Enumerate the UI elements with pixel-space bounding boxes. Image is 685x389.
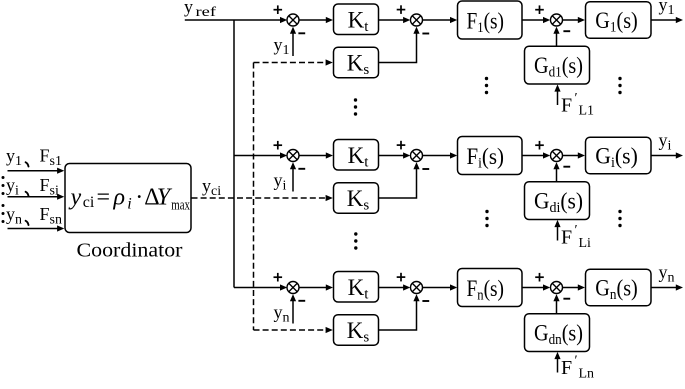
label input yn Fsn (6, 204, 62, 228)
svg-text:G1(s): G1(s) (595, 8, 638, 35)
wire summer3 to G block row n (563, 284, 586, 290)
block G_di(s) disturbance (525, 182, 590, 220)
svg-text:′: ′ (575, 91, 578, 106)
wire y_n feedback into summer 1 row n (290, 294, 296, 323)
label input yi Fsi (6, 175, 59, 199)
ellipsis F column rows 1-2 (485, 77, 488, 94)
svg-text:Fs1: Fs1 (40, 146, 62, 170)
svg-text:Gi(s): Gi(s) (595, 144, 638, 171)
summer 1 row 1 plus sign (274, 5, 283, 14)
wire Kt to summer 2 row i (379, 152, 411, 158)
wire input 1 into coordinator (8, 168, 65, 174)
wire Ks feedback to summer 2 row n (379, 294, 420, 330)
svg-text:y1: y1 (659, 0, 675, 18)
wire input 2 into coordinator (8, 194, 65, 200)
block Ks row 1 (334, 47, 379, 78)
svg-text:F: F (561, 227, 572, 249)
svg-text:max: max (171, 198, 190, 214)
wire G_dn to summer 3 row n (553, 294, 559, 313)
summer 1 row i plus sign (274, 141, 283, 150)
block F_n(s) (458, 269, 523, 307)
ellipsis K column rows 1-2 (354, 98, 357, 115)
svg-text:=: = (97, 185, 111, 211)
summer 3 row i (551, 150, 563, 162)
summer 2 row 1 (411, 14, 423, 26)
svg-text:L1: L1 (579, 104, 595, 119)
wire Kt to summer 2 row n (379, 284, 411, 290)
svg-text:Fn(s): Fn(s) (467, 276, 505, 303)
block G_d1(s) disturbance (525, 46, 590, 84)
wire y_ref branch to row 3 summer (234, 284, 287, 290)
wire G_di to summer 3 row i (553, 162, 559, 181)
node F'_Ln label (561, 354, 594, 382)
summer 3 row 1 (551, 14, 563, 26)
wire F to summer 3 row i (522, 152, 550, 158)
summer 3 row 1 minus sign (563, 30, 570, 32)
summer 1 row n (287, 282, 299, 294)
ellipsis G column rows 1-2 (618, 77, 621, 94)
svg-text:Li: Li (579, 236, 592, 251)
svg-text:yi: yi (274, 170, 287, 194)
svg-text:Fsn: Fsn (40, 204, 62, 228)
svg-text:F1(s): F1(s) (467, 8, 505, 35)
svg-text:y1: y1 (6, 146, 22, 170)
svg-text:′: ′ (575, 354, 578, 369)
summer 3 row i plus sign (535, 141, 544, 150)
summer 3 row n plus sign (535, 273, 544, 282)
node F'_Li label (561, 223, 591, 251)
block Kt row n (334, 272, 379, 303)
summer 1 row 1 minus sign (298, 32, 305, 34)
block G_dn(s) disturbance (525, 314, 590, 352)
node y_i feedback label (274, 170, 287, 194)
wire vertical y_ref distribution line (233, 20, 235, 288)
svg-text:yci: yci (202, 176, 221, 200)
summer 2 row n (411, 282, 423, 294)
summer 1 row n plus sign (274, 273, 283, 282)
svg-text:F: F (561, 357, 572, 379)
wire y_1 feedback into summer 1 row 1 (290, 27, 296, 56)
wire summer1 to Kt row 1 (299, 17, 333, 23)
wire F'_Ln disturbance input (554, 352, 560, 373)
svg-text:y: y (184, 0, 193, 17)
svg-text:F: F (561, 94, 572, 116)
summer 3 row 1 plus sign (535, 5, 544, 14)
wire vertical y_ci dashed distribution (253, 63, 255, 331)
wire Ks feedback to summer 2 row i (379, 162, 420, 198)
summer 3 row n minus sign (563, 298, 570, 300)
svg-text:Fsi: Fsi (40, 175, 59, 199)
svg-text:y: y (69, 185, 82, 211)
svg-text:·: · (135, 185, 143, 211)
svg-text:Gn(s): Gn(s) (595, 276, 638, 303)
label input y1 Fs1 (6, 146, 62, 170)
block Ks row n (334, 315, 379, 346)
summer 1 row i (287, 150, 299, 162)
block G_i(s) (586, 137, 652, 174)
wire output y_n (651, 284, 683, 290)
summer 2 row i minus sign (422, 168, 429, 170)
svg-text:yn: yn (659, 262, 675, 286)
svg-text:′: ′ (575, 223, 578, 238)
wire y_ci dashed to Ks row 2 (192, 195, 333, 201)
wire summer2 to F block row 1 (423, 17, 458, 23)
summer 2 row i plus sign (397, 141, 406, 150)
node y_1 feedback label (274, 35, 290, 59)
wire summer2 to F block row n (423, 284, 458, 290)
summer 3 row n (551, 282, 563, 294)
summer 2 row i (411, 150, 423, 162)
block G_n(s) (586, 269, 652, 306)
vertical ellipsis left inputs lower (2, 204, 5, 223)
svg-text:Ln: Ln (579, 366, 595, 381)
block Ks row i (334, 183, 379, 214)
svg-text:ci: ci (83, 194, 95, 211)
coordinator caption (77, 240, 183, 262)
svg-text:Coordinator: Coordinator (77, 240, 183, 262)
wire G_d1 to summer 3 row 1 (553, 27, 559, 46)
summer 1 row 1 (287, 14, 299, 26)
wire Kt to summer 2 row 1 (379, 17, 411, 23)
wire F'_L1 disturbance input (554, 84, 560, 105)
svg-text:ref: ref (196, 5, 217, 20)
coordinator block (65, 164, 191, 233)
block G_1(s) (586, 2, 652, 39)
summer 3 row i minus sign (563, 166, 570, 168)
summer 1 row n minus sign (298, 300, 305, 302)
wire F to summer 3 row n (522, 284, 550, 290)
svg-text:yn: yn (6, 204, 22, 228)
svg-text:yi: yi (659, 130, 672, 154)
wire summer1 to Kt row n (299, 284, 333, 290)
summer 2 row n plus sign (397, 273, 406, 282)
summer 2 row 1 minus sign (422, 33, 429, 35)
node output y_n label (659, 262, 675, 286)
node y_ref label (184, 0, 216, 20)
wire output y_i (651, 152, 683, 158)
svg-text:Fi(s): Fi(s) (467, 144, 505, 171)
node y_n feedback label (274, 302, 290, 326)
node y_ci label (202, 176, 221, 200)
wire summer3 to G block row 1 (563, 17, 586, 23)
summer 1 row i minus sign (298, 168, 305, 170)
wire y_ci dashed branch to Ks row 1 (254, 59, 333, 65)
block F_1(s) (458, 1, 523, 39)
block F_i(s) (458, 137, 523, 175)
wire F'_Li disturbance input (554, 220, 560, 241)
wire input 3 into coordinator (8, 225, 65, 231)
summer 2 row 1 plus sign (397, 5, 406, 14)
node output y_i label (659, 130, 672, 154)
svg-text:yn: yn (274, 302, 290, 326)
ellipsis G column rows 2-3 (618, 210, 621, 227)
ellipsis F column rows 2-3 (485, 210, 488, 227)
node F'_L1 label (561, 91, 594, 119)
wire summer1 to Kt row i (299, 152, 333, 158)
wire F to summer 3 row 1 (522, 17, 550, 23)
svg-text:y1: y1 (274, 35, 290, 59)
wire summer2 to F block row i (423, 152, 458, 158)
vertical ellipsis left inputs upper (2, 176, 5, 195)
wire output y_1 (651, 17, 683, 23)
block Kt row i (334, 140, 379, 171)
wire summer3 to G block row i (563, 152, 586, 158)
svg-text:ρ: ρ (113, 185, 126, 211)
ellipsis K column rows 2-3 (354, 232, 357, 249)
wire y_i feedback into summer 1 row i (290, 162, 296, 191)
summer 2 row n minus sign (422, 300, 429, 302)
svg-text:i: i (127, 195, 131, 212)
svg-text:yi: yi (6, 175, 19, 199)
wire y_ci dashed branch to Ks row 3 (254, 327, 333, 333)
wire Ks feedback to summer 2 row 1 (379, 27, 420, 63)
wire y_ref to first summer row 1 (185, 17, 287, 23)
node output y_1 label (659, 0, 675, 18)
wire y_ref branch to row 2 summer (234, 152, 287, 158)
block Kt row 1 (334, 4, 379, 35)
coordinator equation y_ci = rho_i * dY_max (69, 185, 191, 214)
